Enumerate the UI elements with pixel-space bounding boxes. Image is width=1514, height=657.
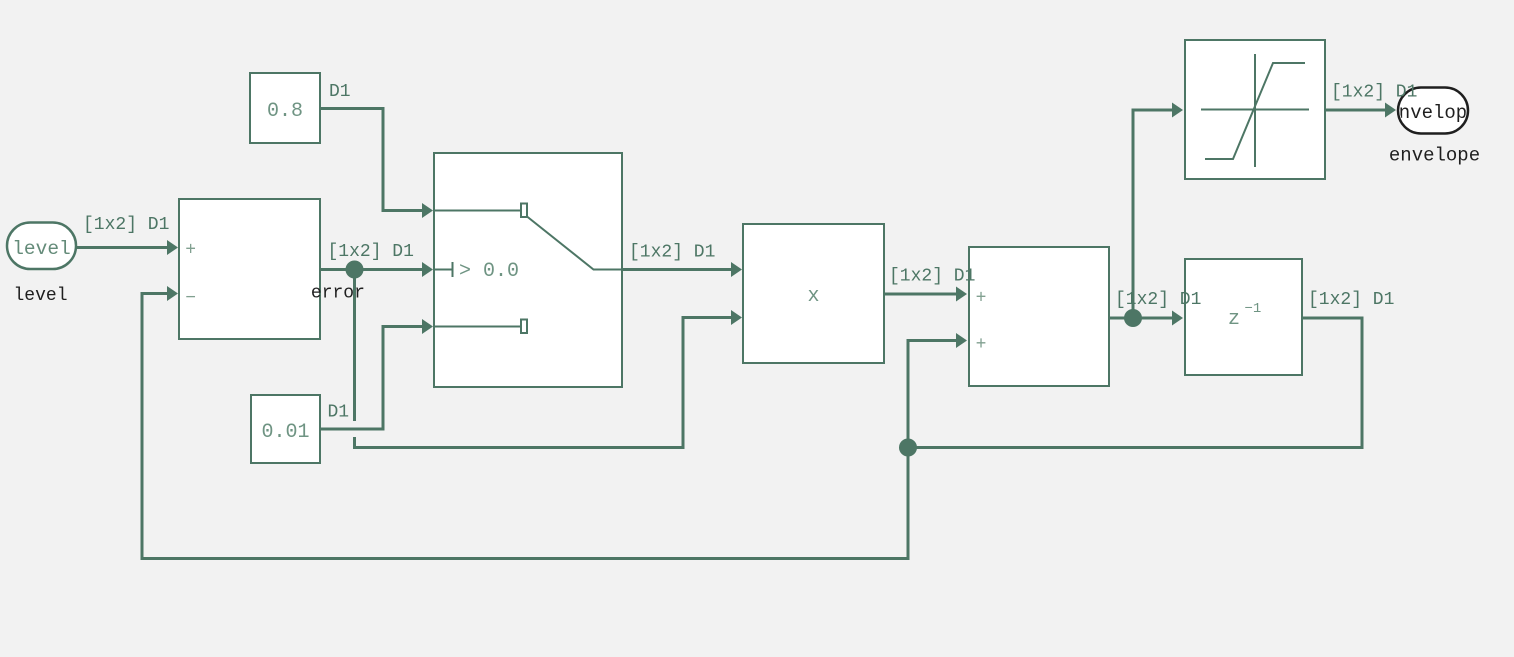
svg-text:level: level <box>12 238 71 260</box>
svg-text:[1x2] D1: [1x2] D1 <box>889 267 975 287</box>
svg-text:[1x2] D1: [1x2] D1 <box>328 242 414 262</box>
svg-text:> 0.0: > 0.0 <box>459 260 519 283</box>
svg-text:+: + <box>185 241 196 261</box>
svg-text:0.8: 0.8 <box>267 100 303 123</box>
svg-text:+: + <box>976 335 987 355</box>
svg-text:0.01: 0.01 <box>261 421 309 444</box>
svg-text:D1: D1 <box>329 82 351 102</box>
svg-text:[1x2] D1: [1x2] D1 <box>1308 290 1394 310</box>
svg-text:+: + <box>976 289 987 309</box>
svg-text:[1x2] D1: [1x2] D1 <box>1115 290 1201 310</box>
svg-text:D1: D1 <box>328 403 350 423</box>
svg-text:−: − <box>185 289 196 309</box>
svg-text:[1x2] D1: [1x2] D1 <box>83 215 169 235</box>
svg-text:error: error <box>311 283 365 303</box>
svg-text:level: level <box>13 286 67 306</box>
svg-text:−1: −1 <box>1245 301 1262 317</box>
svg-text:[1x2] D1: [1x2] D1 <box>1331 83 1417 103</box>
svg-text:envelope: envelope <box>1389 145 1480 167</box>
svg-text:x: x <box>807 285 819 308</box>
svg-text:z: z <box>1228 308 1240 331</box>
svg-text:[1x2] D1: [1x2] D1 <box>629 243 715 263</box>
